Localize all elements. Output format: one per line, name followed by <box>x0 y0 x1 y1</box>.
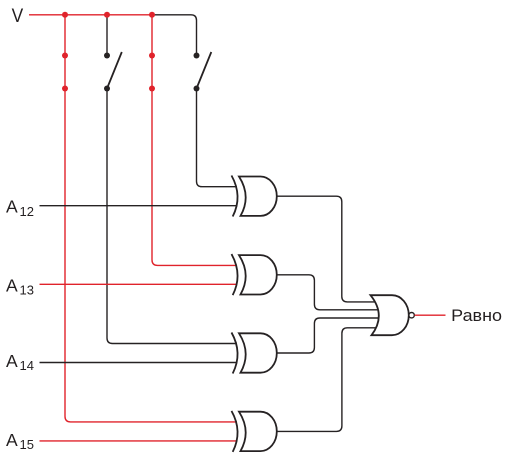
switch S2 upper wire (black) <box>106 15 108 56</box>
node J1 (rail junction, red) <box>62 12 68 18</box>
wire S4 to XOR U1 upper input (black) <box>197 89 238 187</box>
wire A15 to XOR U4 lower input (red) <box>40 440 238 442</box>
switch S1 column (closed, red) and wire to XOR U4 upper input <box>65 15 237 422</box>
xor gate U1 input arc <box>232 176 238 217</box>
svg-text:Равно: Равно <box>451 306 502 325</box>
switch S2 lower contact <box>104 86 110 92</box>
wire U5 output to label (red) <box>415 314 446 316</box>
switch S3 lower contact (red) <box>149 86 155 92</box>
svg-text:13: 13 <box>20 283 34 298</box>
wire A13 to XOR U2 lower input (red) <box>40 283 238 285</box>
switch S1 upper contact (red) <box>62 53 68 59</box>
svg-text:A: A <box>6 275 18 295</box>
switch S1 lower contact (red) <box>62 86 68 92</box>
svg-text:A: A <box>6 197 18 217</box>
svg-text:14: 14 <box>20 358 34 373</box>
switch S3 upper contact (red) <box>149 53 155 59</box>
xor gate U3 input arc <box>232 333 238 374</box>
wire U3 output to NOR U5 input 3 (black) <box>276 318 379 353</box>
wire U2 output to NOR U5 input 2 (black) <box>276 275 379 310</box>
wire S2 to XOR U3 upper input (black) <box>107 89 237 344</box>
svg-text:12: 12 <box>20 204 34 219</box>
switch S4 lower contact <box>194 86 200 92</box>
power rail V (red wire) <box>29 14 152 16</box>
svg-text:A: A <box>6 430 18 450</box>
wire U1 output to NOR U5 input 1 (black) <box>276 196 379 302</box>
xor gate U2 input arc <box>232 254 238 295</box>
wire rail to switch S4 (black) <box>152 15 197 56</box>
node J2 (rail junction, red) <box>104 12 110 18</box>
node J3 (rail junction, red) <box>149 12 155 18</box>
switch S3 column (closed, red) and wire to XOR U2 upper input <box>152 15 237 266</box>
xor gate U1 body <box>239 177 277 216</box>
switch S4 upper contact <box>194 53 200 59</box>
wire A14 to XOR U3 lower input (black) <box>40 362 238 364</box>
xor gate U2 body <box>239 255 277 294</box>
svg-text:15: 15 <box>20 437 34 452</box>
svg-text:A: A <box>6 351 18 371</box>
nor gate U5 body <box>371 295 409 335</box>
switch S2 upper contact <box>104 53 110 59</box>
xor gate U3 body <box>239 333 277 372</box>
wire U4 output to NOR U5 input 4 (black) <box>276 328 379 432</box>
xor gate U4 body <box>239 412 277 451</box>
nor gate U5 output bubble <box>409 313 414 318</box>
wire A12 to XOR U1 lower input (black) <box>40 205 238 207</box>
xor gate U4 input arc <box>232 411 238 452</box>
switch S2 lever (open) <box>107 52 122 89</box>
switch S4 lever (open) <box>197 52 212 89</box>
svg-text:V: V <box>12 5 24 27</box>
